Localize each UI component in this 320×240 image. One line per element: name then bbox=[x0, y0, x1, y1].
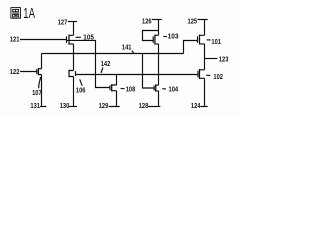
transistor 108 bbox=[109, 85, 111, 90]
diode loop 103 gate to drain bbox=[143, 31, 159, 41]
transistor 101 bbox=[197, 36, 199, 43]
wire 125 to drain of 101 bbox=[204, 20, 206, 36]
transistor 106 (mirrored, gate on right) bbox=[68, 70, 70, 77]
svg-text:142: 142 bbox=[101, 59, 111, 68]
label 101 leader bbox=[207, 39, 211, 41]
svg-text:127: 127 bbox=[58, 17, 68, 26]
svg-text:102: 102 bbox=[213, 72, 223, 81]
wire 104 gate from node 141 bbox=[143, 54, 155, 89]
label 103 leader bbox=[163, 35, 167, 37]
svg-text:130: 130 bbox=[60, 101, 70, 110]
wire 108 drain from node 142 bbox=[116, 75, 118, 86]
wire 106 source bbox=[73, 77, 75, 107]
label 104 leader bbox=[162, 88, 166, 90]
wire 107 source bbox=[41, 75, 43, 107]
svg-text:126: 126 bbox=[142, 16, 152, 25]
label 102 leader bbox=[206, 74, 210, 76]
output node 123 wire bbox=[205, 58, 218, 60]
svg-text:141: 141 bbox=[122, 43, 132, 52]
svg-text:121: 121 bbox=[10, 35, 20, 44]
transistor 103 (diode connected) bbox=[152, 36, 154, 43]
transistor 104 bbox=[153, 86, 155, 91]
label 108 leader bbox=[121, 87, 125, 89]
wire 104 source bbox=[158, 91, 160, 107]
wire 121 continuation to gate of 108 bbox=[67, 40, 111, 87]
label 105 leader bbox=[76, 36, 81, 38]
transistor 105 bbox=[66, 36, 68, 43]
wire 107 drain from node 141 bbox=[41, 54, 43, 69]
wire 127 to drain of 105 bbox=[73, 22, 75, 36]
wire 101 source / 102 drain bbox=[204, 44, 206, 70]
wire 108 source bbox=[116, 91, 118, 107]
svg-text:131: 131 bbox=[30, 101, 40, 110]
svg-text:106: 106 bbox=[76, 85, 86, 94]
transistor 102 bbox=[197, 71, 199, 78]
svg-text:123: 123 bbox=[219, 54, 229, 63]
wire 101 gate from node 141 bbox=[184, 41, 198, 54]
svg-text:129: 129 bbox=[99, 101, 109, 110]
wire 105 source / 106 drain column bbox=[73, 44, 75, 71]
svg-text:107: 107 bbox=[32, 88, 42, 97]
svg-text:104: 104 bbox=[169, 85, 179, 94]
label 106 leader bbox=[80, 79, 83, 86]
svg-text:122: 122 bbox=[10, 67, 20, 76]
svg-text:128: 128 bbox=[139, 101, 149, 110]
wire 126 to drain of 103 bbox=[158, 20, 160, 36]
node 142 wire bbox=[76, 74, 198, 76]
svg-text:103: 103 bbox=[168, 32, 179, 41]
svg-text:1A: 1A bbox=[23, 6, 35, 22]
wire 103 source through nodes 141,142 to 104 drain bbox=[158, 44, 160, 85]
transistor 107 bbox=[36, 69, 38, 74]
title figure label 圖1A bbox=[11, 8, 21, 19]
svg-text:125: 125 bbox=[188, 17, 198, 26]
node 141 wire bbox=[42, 53, 184, 55]
label 107 leader bbox=[39, 77, 41, 88]
wire 102 source bbox=[204, 78, 206, 106]
svg-text:108: 108 bbox=[126, 85, 136, 94]
svg-text:101: 101 bbox=[211, 37, 221, 46]
svg-text:124: 124 bbox=[191, 101, 201, 110]
